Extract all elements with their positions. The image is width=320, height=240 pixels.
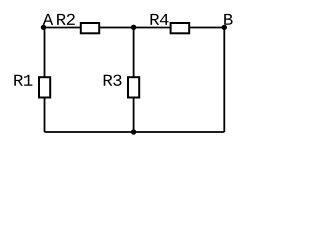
label R1 [14,75,32,86]
node A junction dot [41,25,46,30]
node junction dot bottom middle [131,129,136,134]
node junction dot top middle [131,25,136,30]
wire top rail A to B [44,27,225,29]
node B junction dot [222,25,227,30]
wire middle branch [133,28,135,133]
resistor R2 [81,23,99,33]
resistor R3 [128,77,139,97]
label R2 [57,14,75,25]
wire right branch [223,28,225,133]
wire bottom rail [45,131,225,133]
resistor R4 [171,23,190,33]
label node A [43,14,53,25]
resistor R1 [39,77,50,97]
label R3 [104,75,122,86]
label R4 [151,14,169,25]
wire left branch [44,28,46,133]
label node B [224,14,232,25]
